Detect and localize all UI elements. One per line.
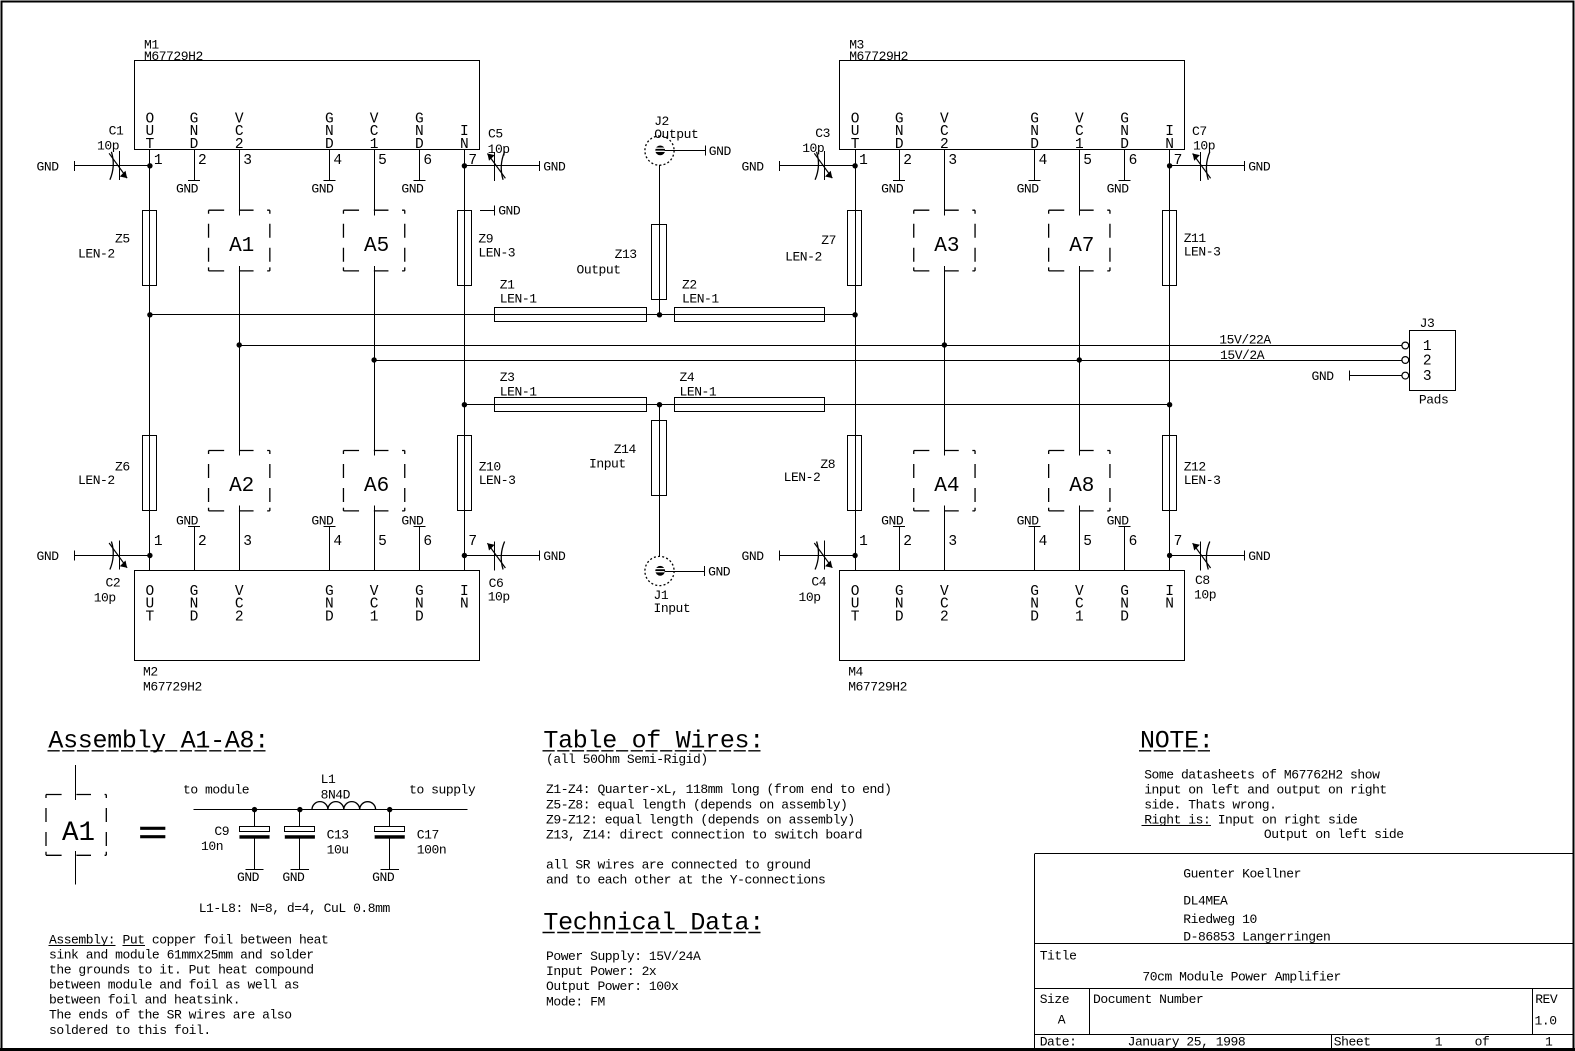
svg-text:GND: GND xyxy=(1312,369,1335,384)
svg-text:side. Thats wrong.: side. Thats wrong. xyxy=(1144,797,1276,812)
svg-text:2: 2 xyxy=(198,534,207,550)
inductor L1 8N4D xyxy=(312,772,376,810)
title block frame xyxy=(1035,853,1574,1048)
svg-text:C1: C1 xyxy=(109,124,124,139)
connector J1 Input xyxy=(645,556,690,616)
svg-text:10p: 10p xyxy=(1194,588,1216,603)
svg-text:T: T xyxy=(146,609,155,625)
svg-text:Z6: Z6 xyxy=(115,460,130,475)
svg-text:GND: GND xyxy=(311,181,334,196)
svg-text:2: 2 xyxy=(235,609,244,625)
ground at C9 xyxy=(237,870,264,885)
ground at C6 xyxy=(540,549,567,564)
title block text xyxy=(1040,867,1558,1050)
svg-text:Z2: Z2 xyxy=(682,278,697,293)
svg-text:Z1: Z1 xyxy=(500,278,515,293)
svg-text:1: 1 xyxy=(154,534,163,550)
wire out of A1 detail bottom xyxy=(75,851,77,885)
ground M3 pin 2 xyxy=(881,181,905,197)
wire J2 to output combine line xyxy=(659,165,661,315)
ground M1 pin 2 xyxy=(176,181,200,197)
junction M1 pin1 xyxy=(147,163,152,168)
svg-text:soldered to this foil.: soldered to this foil. xyxy=(49,1023,211,1038)
svg-text:Z1-Z4: Quarter-xL, 118mm long: Z1-Z4: Quarter-xL, 118mm long (from end … xyxy=(546,782,892,797)
svg-text:Input: Input xyxy=(654,601,691,616)
transmission line Z7 (LEN-2) xyxy=(785,211,861,286)
svg-text:GND: GND xyxy=(1107,181,1130,196)
assembly instructions text xyxy=(49,933,329,1038)
svg-text:1: 1 xyxy=(1435,1035,1443,1050)
ground at C5 xyxy=(540,159,567,174)
svg-text:Z3: Z3 xyxy=(500,370,515,385)
junction input line left xyxy=(462,402,467,407)
svg-text:10p: 10p xyxy=(1193,139,1215,154)
svg-text:5: 5 xyxy=(378,534,387,550)
wire M3 pin7 to M4 pin7 (through Z11, Z12) xyxy=(1169,166,1171,556)
svg-text:Some datasheets of M67762H2 sh: Some datasheets of M67762H2 show xyxy=(1144,767,1380,782)
svg-text:LEN-1: LEN-1 xyxy=(680,385,717,400)
svg-text:Riedweg 10: Riedweg 10 xyxy=(1183,912,1257,927)
svg-text:3: 3 xyxy=(243,534,252,550)
transmission line Z3 (LEN-1) xyxy=(495,370,647,411)
svg-text:7: 7 xyxy=(468,153,477,169)
junction bus B right xyxy=(1077,357,1082,362)
svg-text:2: 2 xyxy=(198,153,207,169)
module M2 M67729H2 xyxy=(135,506,480,695)
capacitor C6 10p (variable) xyxy=(487,542,509,605)
ground at C3 xyxy=(742,159,780,174)
svg-text:LEN-2: LEN-2 xyxy=(78,473,115,488)
transmission line Z13 (Output feed) xyxy=(577,225,667,300)
svg-text:5: 5 xyxy=(378,153,387,169)
ground at C4 xyxy=(742,549,780,564)
wire GND to M1 pin1 (through C1) xyxy=(75,165,150,167)
svg-text:N: N xyxy=(1165,597,1174,613)
svg-text:LEN-2: LEN-2 xyxy=(785,250,822,265)
svg-text:Z9-Z12: equal length (depends: Z9-Z12: equal length (depends on assembl… xyxy=(546,812,855,827)
svg-text:10p: 10p xyxy=(799,590,821,605)
svg-text:Z5: Z5 xyxy=(115,231,130,246)
svg-text:GND: GND xyxy=(1017,181,1040,196)
svg-text:Z13: Z13 xyxy=(615,247,637,262)
svg-text:Mode: FM: Mode: FM xyxy=(546,994,605,1009)
ground at J3 pin3 xyxy=(1312,369,1350,384)
junction M4 pin7 xyxy=(1167,553,1172,558)
svg-text:10p: 10p xyxy=(97,138,119,153)
svg-text:A6: A6 xyxy=(364,475,389,498)
svg-text:6: 6 xyxy=(1129,153,1138,169)
svg-text:to supply: to supply xyxy=(409,783,476,798)
ground at C13 xyxy=(282,870,309,885)
ground at J2 xyxy=(706,144,732,159)
svg-text:6: 6 xyxy=(1129,534,1138,550)
ground M1 pin 6 xyxy=(401,181,425,197)
svg-text:GND: GND xyxy=(543,549,566,564)
svg-text:Sheet: Sheet xyxy=(1334,1035,1371,1050)
wire M4 pin7 to GND (through C8) xyxy=(1170,555,1245,557)
svg-text:Power Supply: 15V/24A: Power Supply: 15V/24A xyxy=(546,949,701,964)
svg-text:GND: GND xyxy=(372,870,395,885)
svg-text:M67729H2: M67729H2 xyxy=(143,679,202,694)
ground M2 pin 2 xyxy=(176,513,200,528)
svg-text:M4: M4 xyxy=(848,665,863,680)
wire net 15V/22A bus xyxy=(239,345,1402,347)
svg-text:GND: GND xyxy=(498,203,521,218)
wire M3 pin1 to M4 pin1 (through Z7, Z8) xyxy=(855,166,857,556)
svg-text:Guenter Koellner: Guenter Koellner xyxy=(1183,867,1301,882)
svg-text:Pads: Pads xyxy=(1419,393,1448,408)
connector J3 Pads xyxy=(1402,316,1456,408)
svg-text:Date:: Date: xyxy=(1040,1035,1077,1050)
junction detail C13 xyxy=(297,807,302,812)
ground at C17 xyxy=(372,870,399,885)
svg-text:3: 3 xyxy=(1423,369,1432,385)
svg-text:A7: A7 xyxy=(1069,235,1094,258)
svg-text:all SR wires are connected to: all SR wires are connected to ground xyxy=(546,857,811,872)
assembly block A1 (detail, dashed) xyxy=(46,795,106,856)
transmission line Z6 (LEN-2) xyxy=(78,436,157,511)
svg-text:D: D xyxy=(1030,609,1039,625)
svg-text:GND: GND xyxy=(543,159,566,174)
wire J3 pin3 to ground xyxy=(1350,375,1402,377)
svg-text:1: 1 xyxy=(859,534,868,550)
svg-text:to module: to module xyxy=(183,783,249,798)
capacitor C8 10p (variable) xyxy=(1193,542,1216,603)
svg-text:LEN-2: LEN-2 xyxy=(78,247,115,262)
svg-text:D: D xyxy=(895,609,904,625)
wire J1 to ground xyxy=(665,571,705,573)
svg-text:LEN-1: LEN-1 xyxy=(500,292,537,307)
assembly block A6 (dashed) xyxy=(343,451,404,511)
ground at C8 xyxy=(1245,549,1271,564)
svg-text:J3: J3 xyxy=(1420,316,1435,331)
svg-text:8N4D: 8N4D xyxy=(321,788,351,803)
ground at J1 xyxy=(705,565,731,580)
wire into A1 detail top xyxy=(75,765,77,800)
svg-text:D: D xyxy=(415,609,424,625)
svg-text:of: of xyxy=(1475,1035,1490,1050)
svg-text:GND: GND xyxy=(401,513,424,528)
svg-text:A2: A2 xyxy=(229,475,254,498)
svg-text:A4: A4 xyxy=(934,475,959,498)
transmission line Z5 (LEN-2) xyxy=(78,211,157,286)
ground at C1 xyxy=(37,159,75,174)
svg-text:Input Power: 2x: Input Power: 2x xyxy=(546,964,657,979)
svg-text:4: 4 xyxy=(333,153,342,169)
svg-text:D: D xyxy=(190,609,199,625)
svg-text:L1-L8: N=8, d=4, CuL 0.8mm: L1-L8: N=8, d=4, CuL 0.8mm xyxy=(199,901,391,916)
svg-text:A: A xyxy=(1058,1013,1066,1028)
svg-text:10n: 10n xyxy=(201,839,223,854)
svg-text:GND: GND xyxy=(708,565,731,580)
svg-text:10p: 10p xyxy=(802,141,824,156)
svg-text:DL4MEA: DL4MEA xyxy=(1183,894,1228,909)
svg-text:1: 1 xyxy=(370,609,379,625)
junction input line J1 xyxy=(657,402,662,407)
svg-text:100n: 100n xyxy=(417,843,446,858)
module M3 M67729H2 xyxy=(840,38,1185,216)
svg-text:6: 6 xyxy=(423,153,432,169)
svg-text:Output: Output xyxy=(577,262,621,277)
svg-text:GND: GND xyxy=(1107,513,1130,528)
svg-text:1.0: 1.0 xyxy=(1535,1014,1557,1029)
svg-text:REV: REV xyxy=(1535,992,1558,1007)
capacitor C9 10n xyxy=(201,810,270,870)
capacitor C17 100n xyxy=(375,810,447,870)
svg-text:Z8: Z8 xyxy=(820,457,835,472)
svg-text:2: 2 xyxy=(1423,353,1432,369)
svg-text:10p: 10p xyxy=(488,590,510,605)
junction output line J2 xyxy=(657,312,662,317)
ground M3 pin 6 xyxy=(1107,181,1131,197)
equals sign xyxy=(140,827,165,838)
svg-text:1: 1 xyxy=(1545,1035,1553,1050)
svg-text:between module and foil as wel: between module and foil as well as xyxy=(49,978,299,993)
svg-text:10p: 10p xyxy=(94,591,116,606)
svg-text:C9: C9 xyxy=(214,824,229,839)
svg-text:A1: A1 xyxy=(229,235,254,258)
svg-text:C4: C4 xyxy=(811,575,826,590)
junction output line left xyxy=(147,312,152,317)
transmission line Z8 (LEN-2) xyxy=(784,436,862,511)
svg-text:C5: C5 xyxy=(488,127,503,142)
svg-text:Output on left side: Output on left side xyxy=(1264,827,1404,842)
svg-text:GND: GND xyxy=(1248,159,1271,174)
transmission line Z12 (LEN-3) xyxy=(1163,436,1221,511)
connector J2 Output xyxy=(645,114,698,165)
transmission line Z11 (LEN-3) xyxy=(1163,211,1221,286)
assembly block A4 (dashed) xyxy=(914,451,975,511)
svg-text:C2: C2 xyxy=(106,576,121,591)
wire GND to M4 pin1 (through C4) xyxy=(780,555,855,557)
wire output combine line (through Z1, Z2) xyxy=(150,314,855,316)
capacitor C3 10p (variable) xyxy=(802,126,832,180)
svg-text:2: 2 xyxy=(903,534,912,550)
ground at C2 xyxy=(37,549,75,564)
capacitor C7 10p (variable) xyxy=(1192,124,1215,181)
ground M4 pin 6 xyxy=(1107,513,1131,528)
junction M1 pin7 xyxy=(462,163,467,168)
svg-text:M67729H2: M67729H2 xyxy=(849,49,908,64)
svg-text:A5: A5 xyxy=(364,235,389,258)
svg-text:and to each other at the Y-con: and to each other at the Y-connections xyxy=(546,872,825,887)
transmission line Z9 (LEN-3) xyxy=(458,211,516,286)
svg-text:input on left and output on ri: input on left and output on right xyxy=(1144,783,1387,798)
wire GND to M3 pin1 (through C3) xyxy=(780,165,855,167)
transmission line Z10 (LEN-3) xyxy=(458,436,516,511)
svg-text:LEN-3: LEN-3 xyxy=(479,473,516,488)
svg-text:sink and module 61mmx25mm and: sink and module 61mmx25mm and solder xyxy=(49,948,314,963)
svg-text:January 25, 1998: January 25, 1998 xyxy=(1128,1035,1246,1050)
svg-text:L1: L1 xyxy=(321,772,336,787)
svg-text:GND: GND xyxy=(742,549,765,564)
svg-text:3: 3 xyxy=(948,534,957,550)
wire A5 to A6 vertical (VC1 chain left) xyxy=(374,266,376,456)
assembly block A3 (dashed) xyxy=(914,210,975,271)
ground at C7 xyxy=(1245,159,1271,174)
svg-text:2: 2 xyxy=(903,153,912,169)
assembly block A7 (dashed) xyxy=(1049,210,1110,271)
svg-text:GND: GND xyxy=(1017,513,1040,528)
svg-text:(all 50Ohm Semi-Rigid): (all 50Ohm Semi-Rigid) xyxy=(546,752,708,767)
assembly block A2 (dashed) xyxy=(209,451,270,511)
ground M4 pin 4 xyxy=(1017,513,1041,528)
junction output line right xyxy=(852,312,857,317)
svg-text:Input: Input xyxy=(589,456,626,471)
junction M4 pin1 xyxy=(852,553,857,558)
svg-text:5: 5 xyxy=(1083,153,1092,169)
svg-text:GND: GND xyxy=(176,181,199,196)
junction detail C17 xyxy=(387,807,392,812)
svg-text:4: 4 xyxy=(1039,153,1048,169)
svg-text:Z14: Z14 xyxy=(614,442,637,457)
table of wires text xyxy=(546,752,892,887)
junction detail C9 xyxy=(252,807,257,812)
wire M1 pin7 to M2 pin7 (through Z9, Z10) xyxy=(464,166,466,556)
capacitor C4 10p (variable) xyxy=(799,541,833,606)
svg-text:1: 1 xyxy=(1075,609,1084,625)
capacitor C2 10p (variable) xyxy=(94,541,127,606)
wire M3 pin7 to GND (through C7) xyxy=(1170,165,1245,167)
ground M2 pin 4 xyxy=(311,513,335,528)
svg-text:Output Power: 100x: Output Power: 100x xyxy=(546,979,679,994)
svg-text:Z4: Z4 xyxy=(680,370,695,385)
capacitor C13 10u xyxy=(285,810,349,870)
svg-text:15V/22A: 15V/22A xyxy=(1219,333,1271,348)
wire M2 pin7 to GND (through C6) xyxy=(464,555,539,557)
note text xyxy=(1142,767,1404,842)
capacitor C5 10p (variable) xyxy=(487,127,509,181)
junction M3 pin7 xyxy=(1167,163,1172,168)
svg-text:C3: C3 xyxy=(815,126,830,141)
svg-text:LEN-3: LEN-3 xyxy=(1184,473,1221,488)
svg-text:N: N xyxy=(460,597,469,613)
ground M3 pin 4 xyxy=(1017,181,1041,197)
svg-text:LEN-3: LEN-3 xyxy=(1184,245,1221,260)
ground M4 pin 2 xyxy=(881,513,905,528)
svg-text:D: D xyxy=(1120,609,1129,625)
junction M2 pin7 xyxy=(462,553,467,558)
svg-text:GND: GND xyxy=(881,513,904,528)
capacitor C1 10p (variable) xyxy=(97,124,127,180)
assembly block A1 (dashed) xyxy=(209,210,270,271)
svg-text:5: 5 xyxy=(1083,534,1092,550)
svg-text:Size: Size xyxy=(1040,992,1069,1007)
svg-text:GND: GND xyxy=(176,513,199,528)
junction M3 pin1 xyxy=(852,163,857,168)
svg-text:C8: C8 xyxy=(1195,573,1210,588)
svg-text:Z5-Z8: equal length (depends o: Z5-Z8: equal length (depends on assembly… xyxy=(546,797,847,812)
svg-text:C7: C7 xyxy=(1192,124,1207,139)
junction bus A left xyxy=(237,342,242,347)
wire input combine line to J1 xyxy=(659,405,661,557)
svg-text:LEN-2: LEN-2 xyxy=(784,470,821,485)
junction M2 pin1 xyxy=(147,553,152,558)
junction bus B left xyxy=(371,357,376,362)
svg-text:7: 7 xyxy=(1174,153,1183,169)
wire input combine line (through Z3, Z4) xyxy=(464,404,1169,406)
svg-text:A1: A1 xyxy=(62,818,95,849)
svg-text:LEN-3: LEN-3 xyxy=(478,245,515,260)
svg-text:A8: A8 xyxy=(1069,475,1094,498)
svg-text:2: 2 xyxy=(940,609,949,625)
svg-text:M2: M2 xyxy=(143,665,158,680)
transmission line Z4 (LEN-1) xyxy=(675,370,825,411)
module M4 M67729H2 xyxy=(840,506,1185,695)
svg-text:GND: GND xyxy=(37,159,60,174)
svg-text:T: T xyxy=(851,609,860,625)
technical data text xyxy=(546,949,701,1009)
svg-text:D-86853 Langerringen: D-86853 Langerringen xyxy=(1183,930,1330,945)
svg-text:Z13, Z14: direct connection to: Z13, Z14: direct connection to switch bo… xyxy=(546,827,862,842)
svg-text:4: 4 xyxy=(333,534,342,550)
svg-text:6: 6 xyxy=(423,534,432,550)
svg-text:GND: GND xyxy=(37,549,60,564)
svg-text:The ends of the SR wires are a: The ends of the SR wires are also xyxy=(49,1008,292,1023)
svg-text:A3: A3 xyxy=(934,235,959,258)
svg-text:GND: GND xyxy=(401,181,424,196)
svg-text:Output: Output xyxy=(654,127,698,142)
svg-text:LEN-1: LEN-1 xyxy=(500,385,537,400)
svg-text:3: 3 xyxy=(948,153,957,169)
junction input line right xyxy=(1167,402,1172,407)
wire assembly detail main xyxy=(194,809,468,811)
ground M1 pin 4 xyxy=(311,181,335,197)
wire net 15V/2A bus xyxy=(374,360,1402,362)
svg-text:3: 3 xyxy=(243,153,252,169)
wire M1 pin1 to M2 pin1 (through Z5, Z6) xyxy=(149,166,151,556)
assembly block A5 (dashed) xyxy=(343,210,404,271)
svg-text:4: 4 xyxy=(1039,534,1048,550)
svg-text:LEN-1: LEN-1 xyxy=(682,292,719,307)
svg-text:7: 7 xyxy=(1174,534,1183,550)
assembly block A8 (dashed) xyxy=(1049,451,1110,511)
svg-text:M67729H2: M67729H2 xyxy=(144,49,203,64)
wire J2 to ground xyxy=(665,150,706,152)
svg-text:1: 1 xyxy=(154,153,163,169)
svg-text:GND: GND xyxy=(1248,549,1271,564)
wire A3 to A4 vertical (VC2 chain right) xyxy=(944,266,946,456)
wire M1 pin7 to GND (through C5) xyxy=(464,165,539,167)
wire GND to M2 pin1 (through C2) xyxy=(75,555,150,557)
module M1 M67729H2 xyxy=(135,38,480,216)
svg-text:GND: GND xyxy=(742,159,765,174)
svg-text:Title: Title xyxy=(1040,948,1077,963)
junction bus A right xyxy=(942,342,947,347)
svg-text:GND: GND xyxy=(881,181,904,196)
svg-text:D: D xyxy=(325,609,334,625)
svg-text:M67729H2: M67729H2 xyxy=(848,679,907,694)
svg-text:GND: GND xyxy=(311,513,334,528)
ground M2 pin 6 xyxy=(401,513,425,528)
svg-text:10u: 10u xyxy=(327,842,349,857)
wire A1 to A2 vertical (VC2 chain left) xyxy=(239,266,241,456)
svg-text:10p: 10p xyxy=(488,142,510,157)
svg-text:GND: GND xyxy=(709,144,732,159)
svg-text:C17: C17 xyxy=(417,828,439,843)
transmission line Z1 (LEN-1) xyxy=(495,278,647,322)
svg-text:Document Number: Document Number xyxy=(1093,992,1203,1007)
transmission line Z2 (LEN-1) xyxy=(675,278,825,322)
svg-text:GND: GND xyxy=(237,870,260,885)
wire A7 to A8 vertical (VC1 chain right) xyxy=(1079,266,1081,456)
svg-text:between foil and heatsink.: between foil and heatsink. xyxy=(49,993,240,1008)
svg-text:1: 1 xyxy=(859,153,868,169)
transmission line Z14 (Input feed) xyxy=(589,421,667,496)
svg-text:C13: C13 xyxy=(327,827,349,842)
svg-text:Z7: Z7 xyxy=(821,233,836,248)
svg-text:15V/2A: 15V/2A xyxy=(1220,348,1265,363)
